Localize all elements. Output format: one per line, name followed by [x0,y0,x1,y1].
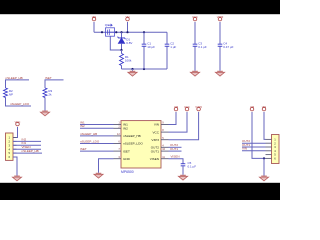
connector J2 pin 1 [266,138,277,142]
label R3 2k [48,89,52,96]
pin 6 nSLEEP_LDO (left) [114,140,144,146]
pin 2 IN2 (left) [114,124,129,130]
black letterbox bar bottom [0,183,280,200]
connector J1 pin 2 [8,140,16,144]
power flag V3P3 [217,15,224,21]
wire J1 pin6 to ground [13,157,17,176]
ground R3 [40,111,49,116]
capacitor C5 [181,164,186,166]
transistor Q1 (P-MOSFET) [106,24,115,36]
connector J2 pin 3 [266,145,277,149]
ground C5 [178,175,187,180]
connector J1 pin 6 [8,155,16,159]
connector J1 body [6,133,14,160]
wire R1 top lead [121,50,123,54]
svg-text:0.1 µF: 0.1 µF [188,164,197,168]
wire J2 pin2 OUT2 [242,142,266,144]
wire V3P3 pin to flag [169,112,199,140]
wire C3 bottom [194,47,196,71]
capacitor C4 [218,44,223,46]
wire flag to pin 1 [13,127,18,138]
pin 9 VIN (right) [154,121,169,127]
wire C2 top [166,32,168,44]
resistor R1 [120,54,124,66]
wire R2 to nSLEEP_LDO [6,98,32,107]
wire VISEN to C5 [169,159,184,164]
label C4 0.47 uF [223,41,233,48]
wire C5 bottom [182,166,184,175]
svg-text:OUT1: OUT1 [151,149,160,153]
wire GND pin to ground [99,159,114,173]
label R2 NP [9,89,13,96]
svg-text:ISET: ISET [80,147,87,151]
label C2 1 uF [170,41,176,48]
wire ISET [45,80,64,88]
wire IN2 [80,127,114,129]
label C1 10 uF [147,41,155,48]
wire C1 bottom [143,47,145,70]
power flag VCC [15,120,21,126]
wire J1 pin4 VISEN [13,148,41,150]
svg-text:10 µF: 10 µF [147,45,155,49]
pin 1 IN1 (left) [114,121,129,127]
wire IN1 [80,124,114,126]
ground J1 [12,176,21,181]
zener diode D1 [118,37,126,44]
wire Q1 gate [110,36,121,50]
junction dots on top rail [101,31,145,33]
pin 3 GND (left) [114,155,131,161]
svg-text:0.1 µF: 0.1 µF [198,45,207,49]
wire C4 bottom [219,47,221,71]
svg-text:IN2: IN2 [80,124,85,128]
power flag VCC [184,105,190,111]
power flag VM [125,15,130,21]
svg-text:VIN: VIN [154,123,159,127]
svg-text:nSLEEP_LDO: nSLEEP_LDO [80,139,100,143]
connector J2 pin 4 [266,149,277,153]
connector J1 pin 1 [8,136,16,140]
ground C4 [215,71,224,76]
power flag VIN [262,105,267,111]
svg-text:V3P3: V3P3 [151,138,159,142]
label C5 0.1 uF [188,161,197,168]
wire bottom rail GND [122,68,168,70]
svg-text:VCC: VCC [15,120,21,124]
power flag VIN [92,15,97,21]
resistor R3 [43,88,47,98]
connector J2 pin 6 [266,157,277,161]
svg-text:VCC: VCC [152,130,159,134]
connector J2 pin 5 [266,153,277,157]
svg-text:VCC: VCC [192,15,198,19]
wire OUT2 [169,146,182,148]
label C3 0.1 uF [198,41,207,48]
svg-text:ISET: ISET [45,76,52,80]
pin 7 ISET (left) [114,147,130,153]
svg-text:0.47 µF: 0.47 µF [223,45,233,49]
svg-text:VIN: VIN [262,105,267,109]
ground top section [128,71,137,76]
label R1 100k [125,55,132,62]
wire C1 top [143,32,145,44]
connector J1 pin 4 [8,147,16,151]
svg-text:V3P3: V3P3 [195,105,202,109]
wire zener bottom [121,43,123,50]
wire nSLEEP_HB to IC [80,135,114,137]
wire J1 pin3 IN1 [13,144,41,146]
wire flag to J2 pin1 [264,112,266,139]
pin 4 OUT2 (right) [151,143,169,149]
wire nSLEEP_HB [6,80,30,88]
ground J2 [259,176,268,181]
svg-text:IN2: IN2 [123,127,128,131]
wire J2 ground branch [263,158,265,175]
black letterbox bar top [0,0,280,14]
svg-text:100k: 100k [125,59,132,63]
wire J2 pin4 VIN [242,150,266,152]
power flag VM [250,105,255,111]
svg-text:V3P3: V3P3 [217,15,224,19]
wire J1 pin5 nSLEEP_HB [13,152,42,154]
wire J2 pin3 OUT1 [242,146,266,148]
wire flag to J2 pin6 [252,112,266,158]
ground C3 [190,71,199,76]
wire C2 bottom [166,47,168,70]
svg-text:VISEN: VISEN [150,157,159,161]
connector J1 pin 5 [8,151,16,155]
wire top rail VM [94,31,167,33]
svg-text:nSLEEP_HB: nSLEEP_HB [80,132,97,136]
svg-text:VISEN: VISEN [171,155,180,159]
wire VM flag drop [127,22,129,32]
capacitor C1 [142,44,147,46]
wire OUT1 [169,150,182,152]
wire C4 top [219,22,221,44]
connector J2 pin 2 [266,141,277,145]
ground IC GND [94,173,103,178]
wire zener top [121,32,123,38]
pin 11 VISEN (right) [150,155,169,161]
svg-text:1 µF: 1 µF [170,45,176,49]
power flag VM [174,105,179,111]
svg-text:nSLEEP_HB: nSLEEP_HB [22,149,39,153]
svg-text:MP6500: MP6500 [121,170,134,174]
junction dot ground branch [263,157,265,159]
svg-text:nSLEEP_LDO: nSLEEP_LDO [10,102,30,106]
svg-text:VIN: VIN [92,15,97,19]
wire R1 bottom lead [121,66,123,70]
svg-text:VIN: VIN [242,147,247,151]
svg-text:ISET: ISET [123,149,130,153]
svg-text:6.8V: 6.8V [126,41,132,45]
wire VIN pin to flag [169,112,177,125]
pin 10 OUT1 (right) [151,147,169,153]
label D1 6.8V [126,37,132,44]
svg-text:NP: NP [9,93,13,97]
svg-text:nSLEEP_LDO: nSLEEP_LDO [123,142,143,146]
wire ground stem [132,69,134,71]
capacitor C2 [165,44,170,46]
power flag VCC [192,15,198,21]
wire VIN flag to rail [93,22,95,32]
wire R3 bottom [44,98,46,111]
wire VCC pin to flag [169,112,188,132]
wire nSLEEP_LDO to IC [80,143,114,145]
wire C3 top [194,22,196,44]
wire ISET to IC [80,150,114,152]
power flag V3P3 [195,105,202,111]
op-amp U1 MP6500 body [121,121,161,168]
junction dots bottom rail [131,68,145,70]
pin 12 nSLEEP_HB (left) [114,132,141,138]
pin 8 VCC (right) [152,128,168,134]
pin 5 V3P3 (right) [151,136,168,142]
svg-text:VCC: VCC [184,105,190,109]
svg-text:nSLEEP_HB: nSLEEP_HB [6,76,23,80]
connector J2 body [272,135,280,164]
junction node gate/zener/R1 [120,49,122,51]
capacitor C3 [193,44,198,46]
connector J1 pin 3 [8,143,16,147]
svg-text:OUT1: OUT1 [170,147,178,151]
resistor R2 [4,88,8,98]
svg-text:2k: 2k [48,93,52,97]
svg-text:GND: GND [123,157,131,161]
svg-text:nSLEEP_HB: nSLEEP_HB [123,134,141,138]
wire J1 pin2 IN2 [13,140,41,142]
